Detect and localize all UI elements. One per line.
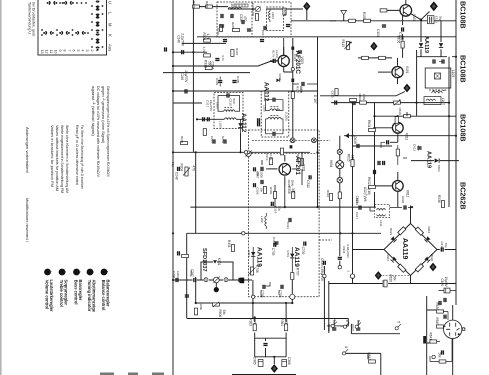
capacitor C617 — [378, 161, 384, 165]
svg-text:A12(7)/V6: A12(7)/V6 — [363, 187, 367, 202]
IF can dashed — [429, 89, 447, 91]
bridge resistor topright — [415, 227, 423, 235]
dashed link det — [319, 239, 332, 241]
capacitor C620 — [440, 277, 450, 293]
svg-text:R201: R201 — [192, 1, 196, 9]
svg-text:27k: 27k — [253, 319, 257, 325]
capacitor C315 — [293, 51, 302, 61]
potentiometer R304 — [180, 164, 196, 177]
IF can box L103 — [425, 68, 451, 88]
filter trimmer — [213, 277, 219, 283]
svg-text:33k: 33k — [222, 310, 226, 316]
capacitor C936 — [327, 324, 336, 332]
svg-text:R303: R303 — [269, 187, 273, 195]
svg-text:C615: C615 — [331, 91, 335, 99]
svg-text:100n: 100n — [176, 271, 180, 278]
capacitor C153 — [353, 101, 355, 105]
resistor R104 — [349, 19, 356, 22]
svg-text:L300: L300 — [219, 121, 223, 128]
wire din feed — [453, 296, 456, 320]
resistor R314 — [280, 148, 283, 155]
junction pin L — [338, 266, 341, 269]
svg-text:C613: C613 — [413, 144, 417, 152]
svg-text:20k: 20k — [284, 319, 288, 325]
svg-text:C247: C247 — [210, 136, 214, 144]
legend mark 3 bass — [73, 269, 80, 276]
wire am det box drop — [291, 280, 293, 303]
svg-text:Änderungen vorbehalten!: Änderungen vorbehalten! — [25, 127, 30, 173]
junction pin P — [432, 355, 435, 358]
wire main left vertical — [172, 0, 174, 375]
diode X701 — [251, 252, 255, 256]
legend mark on schematic 2 — [214, 287, 219, 292]
capacitor C323 — [258, 118, 260, 122]
capacitor C248 — [175, 167, 180, 180]
resistor R103 — [380, 9, 387, 12]
antenna symbol — [341, 10, 347, 20]
wire bridge diamond — [384, 224, 437, 276]
legend mark 5 balance — [101, 269, 108, 276]
svg-text:R616: R616 — [326, 190, 330, 198]
test point diamond D201 — [303, 2, 310, 11]
svg-text:C315: C315 — [293, 54, 297, 62]
capacitor C313 — [239, 14, 247, 24]
svg-text:R113: R113 — [341, 40, 345, 48]
filter disc 2 — [224, 278, 228, 282]
junction pin 6 — [244, 151, 247, 154]
test point diamond D361 — [271, 364, 278, 373]
junction pin det left — [252, 295, 255, 298]
wire y119 — [197, 118, 243, 120]
resistor R365 — [194, 304, 203, 315]
wire h52 — [173, 51, 207, 53]
svg-text:5: 5 — [105, 271, 109, 273]
svg-text:D 187: D 187 — [313, 95, 317, 104]
svg-text:C313: C313 — [239, 14, 243, 22]
svg-text:SFD1037: SFD1037 — [201, 248, 207, 272]
coil L303 — [224, 110, 235, 112]
svg-text:10µ/3V: 10µ/3V — [444, 277, 448, 288]
svg-text:C307: C307 — [256, 171, 260, 179]
svg-text:C305: C305 — [236, 76, 240, 84]
wire v611 base — [375, 127, 393, 129]
capacitor C618 — [353, 136, 359, 148]
resistor R207 — [231, 22, 239, 32]
trimmer C209 — [255, 6, 260, 11]
coil L611 — [377, 209, 386, 217]
wire bottom edge partial — [232, 374, 296, 375]
svg-text:R304: R304 — [180, 164, 184, 172]
capacitor C310 — [227, 93, 236, 106]
wire top right rail — [291, 20, 456, 22]
resistor R206 — [251, 9, 259, 20]
capacitor C935 — [324, 261, 326, 265]
lamp V603 — [337, 149, 342, 154]
resistor R107 — [362, 56, 369, 59]
wire h95.8 — [320, 92, 405, 96]
diode X703 — [290, 254, 294, 258]
test point diamond D651 — [375, 271, 382, 280]
wire right inner vertical — [352, 99, 354, 233]
svg-text:R626: R626 — [430, 254, 434, 262]
capacitor C311b — [286, 218, 291, 229]
test point diamond D101 — [430, 1, 438, 11]
svg-text:L611: L611 — [379, 220, 383, 227]
resistor R613 — [396, 149, 399, 156]
arrow into lamp wire — [345, 133, 349, 138]
test point diamond D102 — [370, 42, 377, 51]
bridge diode topright — [424, 236, 430, 242]
svg-text:C253: C253 — [221, 136, 225, 144]
svg-text:UL?s: UL?s — [272, 50, 276, 58]
blob cap C316b — [290, 145, 293, 148]
svg-text:560: 560 — [208, 61, 212, 67]
junction pin 7 — [242, 232, 245, 235]
dashed link det2 — [248, 140, 330, 153]
ratio det dashed box — [248, 130, 319, 297]
wire h158 right — [411, 160, 459, 162]
wire bottom pair verticals — [255, 303, 286, 357]
resistor R105 — [362, 12, 370, 23]
svg-text:30p: 30p — [439, 16, 443, 21]
svg-text:X701: X701 — [247, 250, 251, 257]
svg-text:Treble control: Treble control — [59, 280, 64, 307]
svg-text:4,7k: 4,7k — [206, 34, 210, 40]
wire v151 branch — [397, 58, 399, 84]
svg-text:L107: L107 — [441, 98, 445, 105]
svg-text:C619: C619 — [440, 242, 444, 250]
IF transformer dashed box L305 — [261, 91, 289, 137]
svg-text:0,68µ/70V: 0,68µ/70V — [346, 244, 350, 258]
svg-text:Tastenverbindung U: Tastenverbindung U — [28, 2, 32, 34]
svg-text:2200: 2200 — [260, 171, 264, 178]
wire upper mid rail right — [339, 36, 456, 38]
svg-text:8: 8 — [63, 50, 67, 52]
coil L306 — [268, 116, 282, 119]
pin arrow 9 — [355, 320, 361, 329]
det transformer dashed box — [374, 205, 389, 218]
wire top left segment — [193, 6, 228, 8]
svg-text:R105: R105 — [362, 12, 366, 20]
svg-text:AA119: AA119 — [423, 36, 429, 53]
potentiometer R610 — [394, 100, 402, 115]
svg-text:560: 560 — [232, 99, 236, 104]
wire bottom cap stubs — [266, 338, 275, 364]
wire short seg — [182, 42, 226, 44]
wire x324 drop — [324, 266, 358, 333]
svg-text:against ┴ (without signal): against ┴ (without signal) — [91, 86, 96, 137]
bridge resistor bottomleft — [398, 264, 406, 272]
capacitor C288 — [239, 278, 241, 282]
svg-text:R606: R606 — [218, 310, 222, 318]
capacitor C611 — [387, 140, 389, 144]
resistor R308 — [202, 33, 210, 43]
svg-text:R312: R312 — [204, 60, 208, 68]
svg-text:390: 390 — [299, 87, 303, 92]
svg-text:BC108B: BC108B — [459, 114, 468, 142]
resistor R313 — [265, 153, 273, 164]
svg-text:3: 3 — [77, 271, 81, 273]
svg-text:4: 4 — [333, 319, 337, 321]
resistor R642 — [438, 353, 446, 364]
svg-text:R207: R207 — [231, 22, 235, 30]
svg-text:4,7n: 4,7n — [221, 55, 225, 61]
resistor R401 — [227, 240, 235, 251]
svg-text:K: K — [108, 34, 113, 37]
transistor AF201 V301 — [279, 164, 291, 176]
svg-text:C936: C936 — [327, 324, 331, 332]
capacitor C615b — [413, 144, 422, 152]
svg-text:100k: 100k — [362, 94, 366, 101]
bridge resistor bottomright — [415, 264, 423, 272]
svg-text:(56k): (56k) — [291, 180, 295, 187]
svg-text:X607: X607 — [386, 254, 390, 261]
capacitor C214 — [261, 26, 266, 38]
wire h77 short — [163, 72, 250, 74]
svg-text:4,7k: 4,7k — [202, 46, 206, 52]
legend mark on schematic 1 — [240, 278, 245, 284]
svg-text:2,2µ/70V: 2,2µ/70V — [181, 33, 185, 47]
svg-text:4: 4 — [81, 50, 85, 52]
pin arrow 5 — [395, 321, 401, 330]
svg-text:6: 6 — [345, 320, 349, 322]
svg-text:R641: R641 — [428, 333, 432, 341]
svg-text:13: 13 — [40, 50, 44, 54]
wire upper mid rail — [197, 36, 339, 38]
wire filter verticals — [215, 283, 217, 287]
capacitor C632 — [442, 350, 444, 354]
page edge shadow — [0, 0, 2, 375]
contact U row — [47, 1, 58, 4]
wire din links — [430, 312, 452, 362]
diode X302 — [213, 258, 221, 266]
resistor R707 — [291, 268, 300, 279]
resistor R202 — [206, 5, 213, 8]
junction pin D — [323, 274, 326, 277]
wire mid stubs — [375, 110, 408, 116]
svg-text:1: 1 — [48, 271, 52, 273]
bridge diode topleft — [390, 236, 396, 242]
svg-text:C121: C121 — [435, 16, 439, 24]
resistor R303 — [269, 187, 277, 198]
capacitor C366 — [282, 357, 291, 366]
capacitor C253 — [224, 139, 226, 143]
potentiometer R606 — [213, 302, 226, 318]
svg-text:L302: L302 — [260, 216, 264, 223]
trimmer cap C303b — [312, 138, 317, 143]
wire base V101 — [380, 10, 441, 56]
svg-text:L303: L303 — [216, 102, 220, 109]
svg-text:V611: V611 — [405, 133, 409, 140]
FM box inner divider — [251, 2, 253, 37]
collector rail AF201C — [292, 38, 294, 92]
resistor R616 — [329, 194, 332, 201]
wire mid right drop — [352, 233, 354, 283]
svg-text:100k: 100k — [199, 304, 203, 311]
capacitor C303 — [218, 77, 222, 87]
svg-text:AA119: AA119 — [401, 238, 408, 260]
wire h152 — [173, 151, 310, 153]
svg-text:2: 2 — [90, 50, 94, 52]
svg-text:R630: R630 — [435, 303, 439, 311]
svg-text:11: 11 — [49, 50, 53, 54]
wire fm out — [358, 57, 392, 59]
capacitor C306 — [261, 167, 263, 171]
resistor R630 — [435, 303, 443, 314]
coil L201 — [228, 7, 242, 9]
resistor R307 — [231, 50, 234, 57]
svg-text:AA112: AA112 — [263, 82, 270, 102]
wire h91 — [173, 90, 318, 92]
svg-text:70p: 70p — [444, 243, 448, 248]
svg-text:Modifications reserved !: Modifications reserved ! — [25, 198, 30, 242]
svg-text:3: 3 — [85, 50, 89, 52]
capacitor C322 — [273, 132, 275, 136]
capacitor C623 — [404, 205, 406, 209]
svg-text:7: 7 — [67, 50, 71, 52]
transistor V612 — [392, 181, 403, 192]
diode X104 — [419, 43, 423, 47]
bridge diode bottomleft — [391, 256, 397, 262]
svg-text:C366: C366 — [287, 357, 291, 365]
svg-text:56k: 56k — [393, 276, 397, 282]
svg-text:C616: C616 — [355, 198, 359, 206]
wire lamp feed — [340, 136, 456, 138]
wire h233 — [187, 232, 381, 234]
diode X301 — [238, 123, 242, 127]
svg-text:470: 470 — [192, 166, 196, 172]
DIN socket X901 — [444, 320, 462, 338]
svg-text:R707: R707 — [295, 268, 299, 276]
svg-text:L305: L305 — [263, 105, 267, 112]
resistor R364 — [280, 318, 288, 330]
svg-text:(L306): (L306) — [285, 112, 289, 121]
svg-text:Balance control: Balance control — [101, 280, 106, 311]
resistor R620 — [384, 275, 397, 287]
svg-text:C248: C248 — [175, 172, 179, 180]
svg-text:C311: C311 — [286, 222, 290, 229]
core marks L303 — [225, 107, 233, 109]
resistor R614 — [338, 192, 341, 199]
svg-text:R640: R640 — [435, 318, 439, 326]
capacitor C324 — [258, 122, 260, 126]
wire af201 leads — [268, 155, 285, 185]
wire lamp chain lower — [339, 233, 341, 265]
svg-text:C317: C317 — [206, 100, 210, 108]
svg-text:R317: R317 — [295, 86, 299, 94]
svg-text:4,7n: 4,7n — [417, 145, 421, 151]
wire left col top — [192, 0, 194, 152]
hook jumper — [423, 336, 426, 344]
capacitor C201 — [216, 25, 224, 35]
svg-text:C618: C618 — [353, 136, 357, 144]
svg-text:470p: 470p — [189, 270, 193, 277]
diode X201 — [276, 73, 282, 82]
svg-text:R363: R363 — [249, 318, 253, 326]
wire L303 loop — [218, 96, 240, 112]
capacitor C306 — [254, 183, 264, 195]
capacitor C213 — [260, 40, 264, 42]
svg-text:C705: C705 — [271, 248, 275, 256]
pin arrow 6 — [343, 320, 349, 329]
svg-text:C209: C209 — [251, 3, 255, 11]
svg-text:L204: L204 — [271, 12, 275, 19]
wire c318 link — [293, 83, 318, 85]
bottom edge cut text 1 — [100, 373, 114, 375]
junction pin det right — [290, 294, 295, 299]
svg-text:1k: 1k — [401, 38, 405, 42]
svg-text:C246: C246 — [177, 35, 181, 43]
svg-text:R610: R610 — [398, 108, 402, 116]
svg-text:56k: 56k — [438, 353, 442, 359]
svg-text:C937: C937 — [351, 324, 355, 332]
resistor R309b — [203, 129, 206, 136]
resistor R363 — [249, 318, 257, 330]
capacitor C302b — [273, 59, 275, 63]
svg-text:V604: V604 — [329, 160, 333, 168]
svg-text:5: 5 — [397, 321, 401, 323]
resistor R106 — [397, 36, 405, 48]
capacitor C934 — [338, 244, 350, 259]
svg-text:R536: R536 — [437, 195, 441, 203]
svg-text:Tuning indicator: Tuning indicator — [87, 280, 92, 312]
svg-text:4: 4 — [91, 271, 95, 273]
bridge diode bottomright — [424, 256, 430, 262]
resistor R306 — [287, 186, 295, 198]
resistor R201 — [193, 5, 200, 8]
capacitor C317a — [203, 117, 205, 121]
svg-text:10n: 10n — [260, 187, 264, 192]
dashed link D651 — [383, 275, 411, 277]
resistor R153 — [404, 115, 411, 118]
coil L105 taps — [432, 91, 445, 94]
svg-text:5: 5 — [76, 50, 80, 52]
wire D187 vertical — [317, 37, 319, 207]
wire bridge feeds — [353, 206, 457, 284]
capacitor C316 — [286, 25, 290, 27]
wire h103 short — [173, 102, 202, 104]
svg-text:C934: C934 — [342, 246, 346, 254]
svg-text:C286: C286 — [172, 271, 176, 279]
capacitor C151 — [433, 59, 444, 63]
svg-text:10: 10 — [54, 50, 58, 54]
svg-text:X703: X703 — [286, 250, 290, 257]
svg-text:Read pF or Ω unless otherwise: Read pF or Ω unless otherwise noted — [75, 125, 80, 185]
svg-text:470: 470 — [243, 16, 247, 22]
svg-text:BC108B: BC108B — [459, 55, 468, 83]
svg-text:Values in brackets for positio: Values in brackets for position FM — [50, 125, 55, 187]
bottom edge cut text 2 — [128, 373, 138, 375]
svg-text:(4,2V): (4,2V) — [275, 50, 279, 58]
svg-text:R618: R618 — [381, 280, 385, 288]
resistor R320 — [335, 89, 338, 96]
transistor V101 — [400, 5, 412, 17]
pin arrow 8 — [342, 346, 348, 355]
wire bus bottom 2 — [187, 319, 348, 327]
resistor R612 — [367, 177, 375, 189]
wire x187 drop — [186, 233, 188, 318]
svg-text:30p: 30p — [277, 206, 281, 211]
svg-text:BC108B: BC108B — [459, 1, 468, 29]
svg-text:Volume control: Volume control — [44, 280, 49, 310]
resistor R402 — [182, 254, 189, 257]
capacitor C318 — [299, 82, 304, 94]
transistor V151 — [392, 67, 403, 78]
capacitor C289 — [185, 295, 189, 297]
svg-text:12: 12 — [45, 50, 49, 54]
oscillator sub box — [267, 7, 284, 31]
svg-text:C310: C310 — [229, 99, 233, 107]
